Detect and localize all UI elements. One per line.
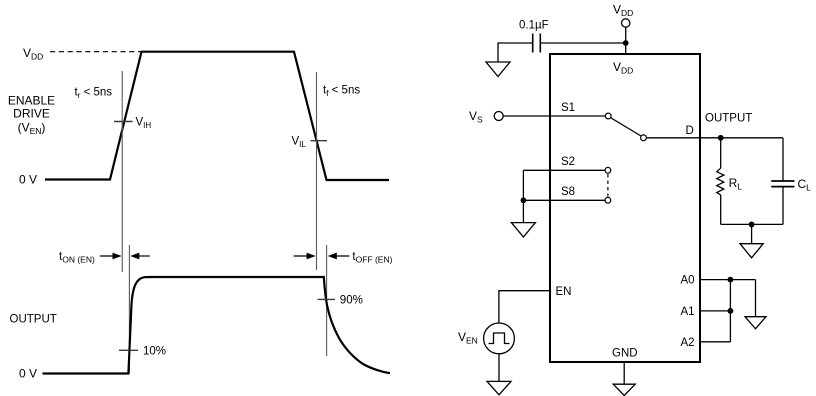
svg-text:EN: EN [556,286,572,298]
svg-text:tON (EN): tON (EN) [59,251,95,265]
svg-text:GND: GND [612,348,638,360]
node marker line falling-edge [316,72,318,270]
svg-text:DRIVE: DRIVE [13,107,50,121]
ground S2/S8 [511,223,535,237]
wire RL/CL bottom [721,223,783,225]
wire dashed VDD reference level [50,51,141,53]
wire EN [499,291,550,323]
wire dashed S2-S8 [607,174,609,197]
wire enable-drive waveform [45,52,389,180]
svg-text:VDD: VDD [613,3,633,19]
wire output waveform [43,277,391,374]
svg-text:tr < 5ns: tr < 5ns [75,87,113,101]
node junction RL/CL ground [749,222,755,228]
node junction S8 [521,197,527,203]
ground load [740,244,763,258]
node VDD terminal circle [622,19,630,27]
wire D output [646,137,783,139]
svg-text:10%: 10% [143,346,166,358]
svg-text:tOFF (EN): tOFF (EN) [352,251,392,265]
wire A2 [700,341,730,343]
svg-text:VDD: VDD [23,46,43,62]
svg-text:S1: S1 [561,102,575,114]
wire S2 [523,169,605,171]
switch S8 contact [605,197,611,203]
wire arrow tOFF left [294,255,312,257]
svg-text:VEN: VEN [458,330,478,346]
wire arrow tON right [134,255,150,257]
source VEN pulse generator [484,323,515,354]
svg-text:OUTPUT: OUTPUT [705,112,752,124]
wire S2/S8 common [522,170,524,222]
svg-text:OUTPUT: OUTPUT [10,314,57,326]
svg-text:A1: A1 [681,306,695,318]
wire A0 to ground [755,280,757,317]
node marker line output-10% [128,245,130,373]
svg-text:0 V: 0 V [19,367,37,381]
wire VS to S1 [503,115,605,117]
switch S2 contact [605,167,611,173]
svg-text:tf < 5ns: tf < 5ns [323,85,360,99]
switch S1 blade [611,118,642,136]
wire cap left [498,43,533,62]
node junction output/RL [718,135,724,141]
wire A0 [700,279,756,281]
switch S1 pole [605,113,611,119]
op-amp U1 device under test box [550,54,700,362]
svg-text:(VEN): (VEN) [18,120,46,136]
wire S8 [523,199,605,201]
wire VDD terminal to box [625,27,627,54]
svg-text:CL: CL [798,177,812,193]
svg-text:VIL: VIL [292,136,307,150]
ground bypass-cap [486,62,510,77]
wire GND [623,362,625,384]
svg-text:RL: RL [729,176,743,192]
ground VEN [487,381,511,394]
wire A1 [700,310,730,312]
resistor RL [720,138,722,168]
wire VEN to ground [498,354,500,382]
node marker line rising-edge [121,71,123,272]
svg-text:0.1µF: 0.1µF [519,20,549,32]
svg-text:VDD: VDD [613,60,633,76]
node junction VDD/cap [623,40,629,46]
svg-text:VIH: VIH [136,117,152,131]
svg-text:D: D [686,125,694,137]
wire arrow tOFF right [332,255,350,257]
node VIL tick [311,140,328,142]
wire to load ground [751,224,753,243]
svg-text:S2: S2 [561,156,575,168]
ground GND pin [613,384,635,395]
capacitor CL [782,138,784,181]
node marker line output-90% [326,245,328,356]
node 10% tick [119,349,138,351]
svg-text:A2: A2 [681,337,695,349]
node junction A1 [728,308,734,314]
node junction A0 [728,277,734,283]
node 90% tick [318,298,336,300]
svg-text:0 V: 0 V [19,173,37,187]
node VS terminal circle [494,112,503,121]
svg-text:VS: VS [469,109,483,125]
svg-text:ENABLE: ENABLE [8,93,55,107]
svg-text:S8: S8 [561,186,575,198]
wire arrow tON left [100,255,118,257]
wire A0-A1-A2 tie [729,280,731,342]
node VIH tick [114,121,133,123]
ground A pins [745,317,766,329]
svg-text:90%: 90% [340,295,363,307]
switch S1 throw [641,135,647,141]
wire cap right to junction [540,42,625,44]
svg-text:A0: A0 [681,275,695,287]
